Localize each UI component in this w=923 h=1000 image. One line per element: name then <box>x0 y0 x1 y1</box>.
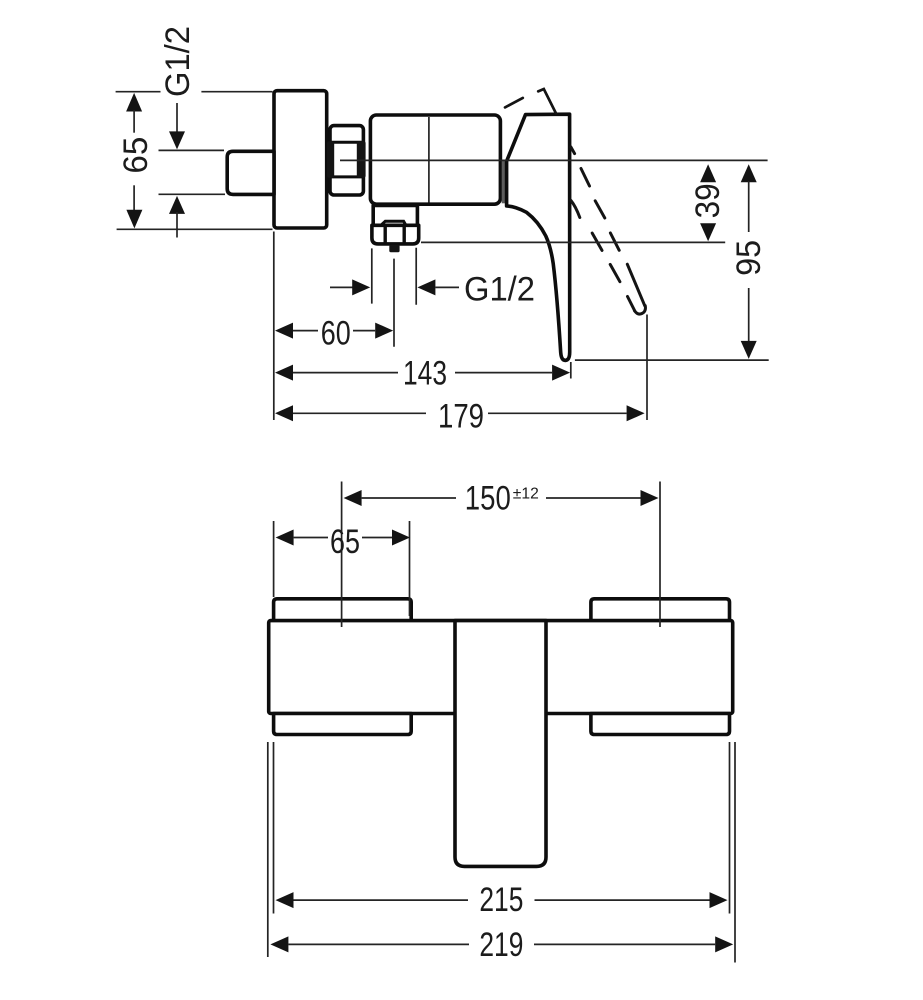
lever handle (solid, down position) <box>507 114 570 360</box>
svg-text:60: 60 <box>321 315 351 353</box>
dimension 215 <box>276 881 728 919</box>
front view: bottom plate left <box>274 714 412 735</box>
svg-text:219: 219 <box>479 926 523 964</box>
front view: top plate right <box>591 599 730 621</box>
body vertical centerline <box>428 117 430 203</box>
front view: body bar <box>269 621 733 714</box>
dimension G1/2 middle <box>330 271 535 309</box>
svg-text:95: 95 <box>730 240 768 276</box>
raised lever ghost outline <box>505 89 556 113</box>
front view: handle block <box>455 621 546 867</box>
lowered lever ghost (dashed) <box>571 147 646 314</box>
horizontal centerline through body <box>340 159 768 161</box>
gray slot between body and lever <box>502 161 507 204</box>
dimension 143 <box>275 354 570 392</box>
valve body <box>370 115 500 204</box>
label G1/2 top left with leader arrows <box>159 26 197 238</box>
wall plate (side view escutcheon) <box>274 91 327 228</box>
extension line bottom of wall plate <box>117 228 273 230</box>
dimension 179 <box>275 397 645 435</box>
extension lines pipe top and bottom <box>159 150 226 194</box>
svg-text:G1/2: G1/2 <box>159 26 197 97</box>
outlet nozzle tip <box>389 245 399 252</box>
svg-text:65: 65 <box>117 137 155 174</box>
bottom extension lines <box>268 742 735 963</box>
svg-text:±12: ±12 <box>513 486 539 503</box>
front view: top plate left <box>274 599 412 621</box>
svg-text:150: 150 <box>465 479 511 517</box>
dimension 39 right <box>689 164 727 241</box>
svg-text:143: 143 <box>403 354 447 392</box>
front view 65 extension lines <box>274 521 410 616</box>
dimension 60 <box>275 315 393 353</box>
dimension 150±12 <box>344 479 659 517</box>
dimension 65 front <box>276 523 410 561</box>
extension line top of wall plate <box>116 91 273 93</box>
svg-text:179: 179 <box>438 397 484 435</box>
front view: bottom plate right <box>591 714 730 735</box>
svg-text:65: 65 <box>330 523 360 561</box>
supply pipe stub <box>227 151 274 194</box>
svg-text:39: 39 <box>689 183 727 218</box>
extension line below lever tip <box>570 362 572 379</box>
dimension 65 vertical left <box>117 93 155 229</box>
right vertical extension line from dashed lever tip <box>646 315 648 421</box>
dimension 219 <box>270 926 733 964</box>
left vertical extension line <box>273 232 275 421</box>
front view: inlet centerline right <box>659 482 661 628</box>
extension line outlet bottom right <box>421 241 725 243</box>
extension line lever tip level <box>575 359 769 361</box>
svg-text:215: 215 <box>479 881 523 919</box>
front view: inlet centerline left <box>341 482 343 628</box>
extension lines below outlet <box>372 248 416 347</box>
outlet block <box>372 206 419 244</box>
svg-text:G1/2: G1/2 <box>464 271 535 309</box>
dimension 95 right <box>730 164 768 359</box>
inlet hex nut <box>327 126 366 195</box>
